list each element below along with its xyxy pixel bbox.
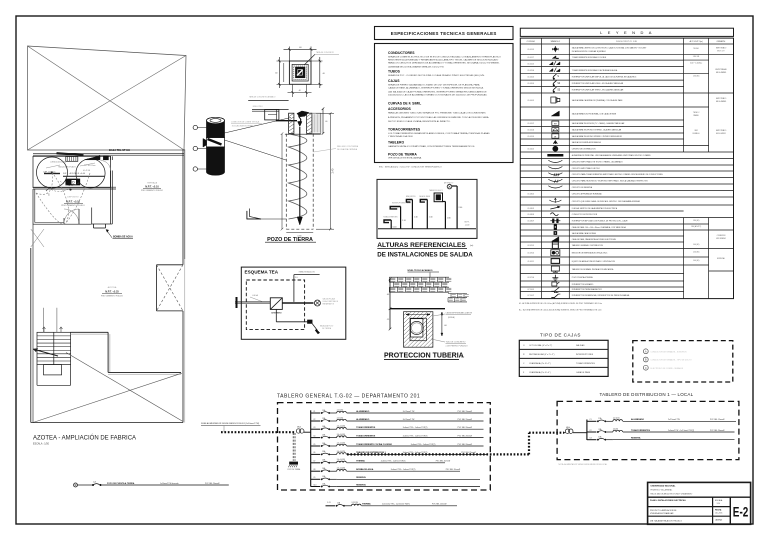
- svg-text:LLEGA 2x10mm2 TW: LLEGA 2x10mm2 TW: [50, 161, 67, 164]
- pozo de tierra - register box plan view: [289, 61, 311, 84]
- TD1 dashed box: [557, 401, 739, 459]
- svg-text:VER DISENO: VER DISENO: [716, 238, 727, 240]
- small brick block right: [448, 294, 469, 302]
- svg-text:POZO DE TIERRA: POZO DE TIERRA: [388, 153, 417, 157]
- svg-text:1.40 (M.): 1.40 (M.): [693, 244, 700, 246]
- svg-text:LA MINIMA SECCION A USARSE SER: LA MINIMA SECCION A USARSE SERA DE 2.5mm…: [388, 66, 444, 69]
- svg-text:OBSERV.: OBSERV.: [717, 41, 726, 43]
- svg-text:LLEGA: LLEGA: [252, 294, 259, 297]
- svg-text:THERMA: THERMA: [356, 460, 365, 463]
- conduit dashed arcs in rooms: [36, 172, 52, 194]
- svg-text:BAJA TEL ST HH: BAJA TEL ST HH: [109, 148, 130, 152]
- svg-text:PARA LOS CIRCUITOS DERIVADOS D: PARA LOS CIRCUITOS DERIVADOS DE ALUMBRAD…: [388, 62, 500, 65]
- west boundary wall lower: [30, 248, 32, 423]
- svg-text:PARA INSTALACION: PARA INSTALACION: [299, 270, 316, 273]
- svg-text:2-4+1-4(20): 2-4+1-4(20): [337, 434, 346, 436]
- svg-text:CONDUCTO DE PROTECCION: CONDUCTO DE PROTECCION: [572, 214, 598, 216]
- svg-text:CENTRO DE DISTRIBUCION: CENTRO DE DISTRIBUCION: [572, 149, 596, 151]
- svg-text:SALIDA PARA CAJA DE PASE: SALIDA PARA CAJA DE PASE: [572, 232, 597, 235]
- svg-text:E-2: E-2: [733, 504, 749, 520]
- svg-text:2-4+1-4(20): 2-4+1-4(20): [337, 442, 346, 444]
- svg-text:DE PVC RIGIDO CLASE LIVIANA, R: DE PVC RIGIDO CLASE LIVIANA, RESISTENTE …: [388, 120, 451, 123]
- lower terrace crossed diagonals: [33, 373, 182, 422]
- shaft dashed X: [157, 265, 184, 311]
- down line to ground terminal: [275, 309, 277, 321]
- svg-text:CONECTOR DE COBRE TIPO A-B: CONECTOR DE COBRE TIPO A-B: [231, 121, 260, 124]
- svg-text:o DE FIERRO FUNDIDO: o DE FIERRO FUNDIDO: [446, 345, 469, 347]
- svg-text:2-6+1-6(25): 2-6+1-6(25): [337, 451, 346, 453]
- lamp circle symbol: [314, 300, 320, 306]
- pozo tierra circuit row bottom left: [74, 483, 78, 487]
- svg-text:DE TIERRA: DE TIERRA: [322, 327, 332, 330]
- svg-text:C-11: C-11: [327, 502, 331, 504]
- room divider wall: [33, 186, 116, 188]
- dimension right of box: [311, 60, 323, 62]
- svg-text:CIRCUITO PARA TOMACORRIENTES E: CIRCUITO PARA TOMACORRIENTES EMPOTRADO E…: [572, 173, 664, 176]
- svg-text:CAJA DE PASE: 100 x 100 x 55mm: CAJA DE PASE: 100 x 100 x 55mm CUADRADA,…: [572, 226, 627, 229]
- svg-text:CIRCUITO PARA TELEVISION / TEL: CIRCUITO PARA TELEVISION / TELEFONO EMPO…: [572, 180, 649, 183]
- svg-text:ALUMBRADO: ALUMBRADO: [631, 418, 645, 421]
- svg-text:LOS TOMACORRIENTES SERAN BIPOL: LOS TOMACORRIENTES SERAN BIPOLARES DOBLE…: [388, 132, 490, 135]
- svg-text:CIRCUITO EMPOTRADO EN PISO: CIRCUITO EMPOTRADO EN PISO: [572, 167, 601, 170]
- svg-text:.60: .60: [322, 73, 325, 75]
- svg-text:ALUMBRADO: ALUMBRADO: [356, 410, 370, 413]
- left vertical dimension: [389, 279, 391, 329]
- svg-text:SALIDAS: SALIDAS: [576, 344, 585, 347]
- svg-text:N.P.T. +5.10: N.P.T. +5.10: [145, 185, 159, 188]
- svg-text:.60: .60: [299, 47, 302, 49]
- stair landing: [44, 365, 62, 375]
- svg-text:L E Y E N D A: L E Y E N D A: [600, 30, 653, 35]
- svg-text:ESC : S/ESCALA (m): ESC : S/ESCALA (m) : metros TW : CONDUCT…: [379, 166, 442, 169]
- svg-text:01.05.05: 01.05.05: [528, 136, 535, 138]
- svg-text:1.40 (M.): 1.40 (M.): [693, 260, 700, 262]
- svg-text:PVC SEL 20mmØ: PVC SEL 20mmØ: [710, 430, 725, 432]
- svg-text:1/50: 1/50: [717, 503, 721, 505]
- door opening and swing: [63, 218, 65, 224]
- svg-text:PISO CEMENTO PULIDO: PISO CEMENTO PULIDO: [141, 190, 164, 192]
- svg-text:SERAN DE PVC - CLORURO DE POLI: SERAN DE PVC - CLORURO DE POLIVINILO CLA…: [388, 74, 485, 77]
- svg-text:EN T. O P.: EN T. O P.: [717, 51, 725, 53]
- svg-text:(m): (m): [461, 357, 465, 359]
- svg-text:INTERRUPTOR BIPOLAR CON FUSIBL: INTERRUPTOR BIPOLAR CON FUSIBLE, DE PROT…: [572, 220, 629, 223]
- especificaciones title box: [375, 27, 514, 40]
- salida 2: [400, 207, 402, 229]
- line to lamp: [282, 302, 313, 304]
- svg-text:EQUIPO DE AIRE ACONDICIONADO /: EQUIPO DE AIRE ACONDICIONADO / VENTILACI…: [572, 260, 616, 263]
- salida 4: [426, 200, 428, 229]
- svg-text:01.08.07: 01.08.07: [528, 221, 535, 223]
- svg-text:1.80 / ML: 1.80 / ML: [693, 56, 700, 58]
- svg-text:2-4+1-4(20): 2-4+1-4(20): [337, 468, 346, 470]
- svg-text:THERMA: THERMA: [362, 503, 371, 506]
- floor plan - upper crossed roof area: [28, 46, 187, 150]
- svg-text:TOMACORRIENTE MONOFASICO DOBLE: TOMACORRIENTE MONOFASICO DOBLE: [572, 56, 607, 59]
- conductor entry double lines: [252, 109, 289, 111]
- svg-text:TIPO DE CAJAS: TIPO DE CAJAS: [540, 333, 581, 338]
- medidor symbol at TG entry: [296, 429, 300, 433]
- helix electrode coil: [289, 134, 307, 219]
- svg-text:01.03.05: 01.03.05: [528, 83, 535, 85]
- svg-text:CAJA DE PASE: CAJA DE PASE: [576, 371, 591, 374]
- svg-text:CONEXION: CONEXION: [717, 235, 726, 237]
- svg-text:S.E.: S.E.: [295, 277, 299, 279]
- TG vertical bus: [310, 410, 312, 486]
- svg-text:PVC SEL 15mmØ: PVC SEL 15mmØ: [458, 419, 473, 421]
- svg-text:RESERVA: RESERVA: [356, 483, 366, 486]
- svg-text:2-4+1-4(20): 2-4+1-4(20): [337, 459, 346, 461]
- svg-text:SALIDA PARA TELEVISION (TV - C: SALIDA PARA TELEVISION (TV - CABLE), CAJ…: [572, 122, 625, 125]
- svg-text:SERAN DE COBRE ELECTROLITICO D: SERAN DE COBRE ELECTROLITICO DE 99.9% DE…: [388, 56, 501, 59]
- right dim arrows: [441, 312, 443, 336]
- tipo de cajas table: [519, 340, 608, 376]
- svg-text:.40: .40: [298, 90, 300, 92]
- svg-text:ALUMBRADO: ALUMBRADO: [356, 418, 370, 421]
- svg-text:TABLERO GENERAL / DISTRIBUCION: TABLERO GENERAL / DISTRIBUCION: [572, 244, 604, 247]
- svg-text:ALTURAS REFERENCIALES: ALTURAS REFERENCIALES: [377, 242, 466, 249]
- svg-text:2x4mm2 TW + 1x4mm2 TW(T): 2x4mm2 TW + 1x4mm2 TW(T): [403, 435, 428, 437]
- svg-text:02.02.01: 02.02.01: [528, 245, 535, 247]
- deposito room walls: [32, 189, 34, 224]
- svg-text:ALIMENTADOR PRINCIPAL. VER DIA: ALIMENTADOR PRINCIPAL. VER DIAGRAMA DE U…: [572, 154, 652, 157]
- svg-text:01.03.02: 01.03.02: [528, 77, 535, 79]
- svg-text:kW-h: kW-h: [297, 427, 301, 429]
- TG ground tap double dashed: [292, 433, 294, 461]
- esquema inner dashed box: [246, 280, 304, 330]
- title block top cell: [648, 496, 751, 498]
- svg-text:TABLERO GENERAL T.G-02 —: TABLERO GENERAL T.G-02 — DEPARTAMENTO 20…: [277, 393, 420, 399]
- ground rod cylinder detail: [203, 117, 225, 175]
- svg-text:CAJAS DE PASE, ALUMBRADO, INTE: CAJAS DE PASE, ALUMBRADO, INTERRUPTORES …: [388, 87, 484, 90]
- svg-text:07.10.01: 07.10.01: [528, 289, 535, 291]
- esquema tea outer box: [241, 267, 345, 339]
- svg-text:PVC SEL 15mmØ: PVC SEL 15mmØ: [432, 504, 447, 506]
- svg-text:V= 2.50: V= 2.50: [83, 170, 91, 172]
- svg-text:INTERRUPTOR UNIPOLAR TRIPLE -: INTERRUPTOR UNIPOLAR TRIPLE - EN CAJA RE…: [572, 89, 624, 92]
- svg-text:CONDUCTORES: CONDUCTORES: [388, 51, 415, 55]
- svg-text:TUB. DE CONCRETO: TUB. DE CONCRETO: [446, 342, 466, 344]
- left dim of well: [281, 134, 283, 230]
- wall crossing black marks: [236, 297, 238, 308]
- svg-text:PVC SEL 20mmØ: PVC SEL 20mmØ: [436, 461, 451, 463]
- svg-text:OCTOGONAL (4"x 4"x 2"): OCTOGONAL (4"x 4"x 2"): [529, 344, 552, 347]
- svg-text:VER DETALLE EN ESTA LAMINA.: VER DETALLE EN ESTA LAMINA.: [388, 157, 422, 160]
- pipe circle inside: [411, 319, 423, 337]
- especificaciones body box: [375, 44, 514, 163]
- salida 6 - braquete alto con artefacto: [456, 186, 458, 229]
- svg-text:0.40 / *1.40 (Ba.): 0.40 / *1.40 (Ba.): [690, 63, 703, 65]
- svg-text:CAJA DE PASE, PARA INSTALACION: CAJA DE PASE, PARA INSTALACIONES ELECTRI…: [572, 238, 617, 241]
- svg-text:CIRCUITO QUE SUBE / BAJA - SE: CIRCUITO QUE SUBE / BAJA - SE INDICA EL …: [572, 200, 641, 203]
- small crossed corner at west: [31, 229, 44, 247]
- svg-text:2x4mm2 TW + 1x4mm2 TW(T): 2x4mm2 TW + 1x4mm2 TW(T): [391, 469, 416, 471]
- south boundary: [31, 422, 183, 424]
- svg-text:0.40: 0.40: [393, 227, 397, 229]
- svg-text:AZOTEA: AZOTEA: [108, 286, 117, 289]
- svg-text:INTERRUPTOR UNIPOLAR DOBLE - E: INTERRUPTOR UNIPOLAR DOBLE - EN CAJA REC…: [572, 82, 624, 85]
- dimension lines above box: [288, 47, 290, 62]
- svg-text:01.09.02: 01.09.02: [528, 253, 535, 255]
- svg-text:2x4mm2 TW + 1x2.5mm2 TW(T): 2x4mm2 TW + 1x2.5mm2 TW(T): [668, 430, 695, 432]
- svg-text:2.40: 2.40: [332, 168, 335, 173]
- thermowelded joint black: [297, 111, 309, 117]
- svg-text:NIVEL PISO: NIVEL PISO: [253, 106, 264, 108]
- svg-text:UNIVERSIDAD NACIONAL: UNIVERSIDAD NACIONAL: [651, 485, 677, 488]
- svg-text:PISO CEMENTO PULIDO: PISO CEMENTO PULIDO: [61, 205, 85, 207]
- svg-text:CIRCUITO DE RESERVA: CIRCUITO DE RESERVA: [572, 186, 593, 189]
- svg-text:PLANO: INSTALACIONES ELECTRIC: PLANO: INSTALACIONES ELECTRICAS: [650, 499, 686, 502]
- svg-text:NOTA: ALIMENTADOR VIENE DESDE: NOTA: ALIMENTADOR VIENE DESDE MEDIDOR M-…: [559, 463, 608, 466]
- svg-text:.60: .60: [325, 121, 327, 123]
- svg-text:CONDUCTOR DE SENALES - SONOR: CONDUCTOR DE SENALES - SONOROS: [651, 350, 688, 353]
- bottom line under walls: [285, 133, 321, 135]
- plan north wall: [33, 152, 184, 154]
- leyenda main table: [520, 38, 733, 299]
- section connection lines from plan to section: [292, 84, 294, 97]
- svg-text:GABINETE METALICO P/EMPOTRAR,: GABINETE METALICO P/EMPOTRAR, CON INTERR…: [388, 145, 475, 148]
- svg-text:POZO DE PUESTA A TIERRA: POZO DE PUESTA A TIERRA: [107, 482, 135, 485]
- svg-text:SOLDADURA EXOTERMICA: SOLDADURA EXOTERMICA: [232, 125, 256, 128]
- feeder double line into esquema: [235, 301, 270, 303]
- svg-text:TOMACORRIENTES: TOMACORRIENTES: [356, 434, 376, 437]
- salida 3: [411, 200, 413, 229]
- hatched encasement square: [404, 312, 433, 348]
- top inner dim arrows: [406, 314, 430, 316]
- dashed notes box with A B C: [633, 341, 733, 382]
- svg-text:2-2.5(15): 2-2.5(15): [352, 502, 359, 504]
- svg-text:B: B: [645, 358, 647, 362]
- svg-text:CAJAS: CAJAS: [388, 79, 400, 83]
- svg-text:CIRCUITO A PRUEBA DE HUMEDAD: CIRCUITO A PRUEBA DE HUMEDAD: [572, 193, 603, 196]
- pump box: [66, 179, 80, 185]
- svg-text:TOMACORRIENTES: TOMACORRIENTES: [576, 362, 596, 365]
- svg-text:TABLERO: TABLERO: [388, 141, 404, 145]
- svg-text:SALIDA PARA CENTRO DE LUZ EN T: SALIDA PARA CENTRO DE LUZ EN TECHO, CAJA…: [572, 46, 648, 49]
- svg-text:01.02.04: 01.02.04: [528, 70, 535, 72]
- east boundary wall: [182, 150, 184, 260]
- svg-text:LAS SALIDAS DE CAJA P/TOMACORR: LAS SALIDAS DE CAJA P/TOMACORRIENTES, IN…: [388, 91, 487, 94]
- svg-text:INCANDESCENTE O SIMILAR EQUIPA: INCANDESCENTE O SIMILAR EQUIPADO: [572, 50, 607, 53]
- stairs: [37, 332, 71, 364]
- svg-text:DE CHACRA CERNIDA: DE CHACRA CERNIDA: [337, 148, 358, 151]
- svg-text:N.F.T. +8.95 N.F.F. +6.40: N.F.T. +8.95 N.F.F. +6.40: [63, 173, 86, 175]
- svg-text:TERRAZA: TERRAZA: [147, 182, 158, 185]
- svg-text:TABLERO DE BOMBAS. INSTALACION: TABLERO DE BOMBAS. INSTALACION MECANICA: [572, 268, 614, 271]
- svg-text:PVC SEL 20mmØ: PVC SEL 20mmØ: [458, 435, 473, 437]
- bottom left pipe elbow: [247, 211, 261, 219]
- svg-text:NIVEL TECHO ACABADO: NIVEL TECHO ACABADO: [408, 269, 433, 272]
- svg-text:Ba. : ALTURA INFERIOR DE 1.40: Ba. : ALTURA INFERIOR DE 1.40 (0.40m ALT…: [519, 309, 602, 312]
- leader lines to pozo detail: [225, 118, 292, 134]
- roof inner parapet L-line: [71, 331, 109, 333]
- svg-text:02.07.06: 02.07.06: [528, 277, 535, 279]
- tank room walls: [33, 156, 111, 187]
- bottom dim: [286, 232, 313, 234]
- svg-text:PISO CEMENTO PULIDO: PISO CEMENTO PULIDO: [101, 295, 124, 297]
- svg-text:(BREA): (BREA): [448, 316, 455, 319]
- svg-text:1.50 (M.): 1.50 (M.): [693, 252, 700, 254]
- svg-text:ESCALA:: ESCALA:: [715, 499, 723, 502]
- svg-text:01.05.07: 01.05.07: [528, 123, 535, 125]
- svg-text:A: A: [645, 349, 647, 353]
- salida 5 - tablero caja: [444, 202, 446, 229]
- center down conductor with arrow: [299, 127, 301, 219]
- svg-text:CAPA IMPERMEABILIZANTE: CAPA IMPERMEABILIZANTE: [446, 312, 473, 315]
- svg-text:TOMACORRIENTE COCINA Y HORNO: TOMACORRIENTE COCINA Y HORNO: [356, 443, 392, 446]
- stair arrow: [33, 349, 58, 356]
- diagonal to electrode: [312, 324, 317, 331]
- right dimension line of well: [316, 112, 334, 114]
- stair top symbols: [43, 327, 46, 332]
- svg-text:ACCESORIOS: ACCESORIOS: [388, 107, 412, 111]
- svg-text:1.80: 1.80: [447, 217, 451, 219]
- svg-text:POZO PUESTA A TIERRA: POZO PUESTA A TIERRA: [572, 276, 594, 279]
- svg-text:ESQUEMA TEA: ESQUEMA TEA: [245, 269, 279, 274]
- svg-text:2-2.5(15): 2-2.5(15): [337, 417, 344, 419]
- feeder dotted line from left: [221, 431, 296, 433]
- svg-text:PARARRAYOS: PARARRAYOS: [323, 303, 335, 306]
- svg-text:TECHO /: TECHO /: [693, 112, 700, 114]
- svg-text:RELLENO CON TIERRA: RELLENO CON TIERRA: [337, 145, 359, 148]
- svg-text:SALIDA PARA TELEFONO INTERNO /: SALIDA PARA TELEFONO INTERNO / INTERCOMU…: [572, 135, 623, 138]
- svg-text:TAPA DE CONCRETO: TAPA DE CONCRETO: [316, 51, 335, 54]
- svg-text:CUADRADA (4"x 4"x 2"): CUADRADA (4"x 4"x 2"): [529, 362, 551, 365]
- section right dim line: [322, 109, 324, 134]
- TG ground symbol: [289, 462, 298, 465]
- svg-text:CURVAS DE F. SIMIL: CURVAS DE F. SIMIL: [388, 102, 421, 106]
- svg-text:01.05.04: 01.05.04: [528, 130, 535, 132]
- svg-text:EN EL MURO: EN EL MURO: [716, 133, 727, 135]
- svg-text:PVC SEL 15mmØ: PVC SEL 15mmØ: [710, 419, 725, 421]
- svg-text:SALIDA PARA CALENTADOR (THERMA: SALIDA PARA CALENTADOR (THERMA), CON CAJ…: [572, 99, 623, 102]
- dimension left of box: [277, 60, 290, 62]
- svg-text:TANQUE ELEVADO: TANQUE ELEVADO: [58, 165, 76, 168]
- svg-text:PARA LAS UNIONES TUBO-TUBO SER: PARA LAS UNIONES TUBO-TUBO SERAN DE PVC …: [388, 112, 486, 115]
- svg-text:PVC SEL 20mmØ: PVC SEL 20mmØ: [446, 469, 461, 471]
- svg-text:D E S C R I P C I O N: D E S C R I P C I O N: [616, 41, 637, 43]
- svg-text:01.06.01: 01.06.01: [528, 149, 535, 151]
- svg-text:2x4mm2 TW + 1x4mm2 TW(T): 2x4mm2 TW + 1x4mm2 TW(T): [403, 427, 428, 429]
- svg-text:2-2.5(15): 2-2.5(15): [337, 409, 344, 411]
- conductor squiggle down into well: [299, 114, 301, 122]
- svg-text:SALIDA PARA ELECTROBOMBA, CON: SALIDA PARA ELECTROBOMBA, CON CAJA DE PA…: [572, 112, 617, 115]
- svg-text:01.08.02: 01.08.02: [528, 208, 535, 210]
- alt col divider lines: [684, 53, 709, 55]
- svg-text:BOMBA DE AGUA: BOMBA DE AGUA: [113, 236, 133, 239]
- junction boxlet: [265, 110, 279, 120]
- svg-text:2-4(20): 2-4(20): [613, 428, 619, 430]
- svg-text:01.08.03: 01.08.03: [528, 214, 535, 216]
- svg-text:100x55x50mm; LAS DE ALUMBRADO: 100x55x50mm; LAS DE ALUMBRADO SERAN OCTO…: [388, 94, 488, 97]
- svg-text:N.P.T.: N.P.T.: [465, 222, 470, 224]
- svg-text:TOMACORRIENTES: TOMACORRIENTES: [356, 426, 376, 429]
- svg-text:RESERVA: RESERVA: [631, 437, 641, 440]
- svg-text:.15: .15: [387, 319, 390, 321]
- svg-text:PVC SEL 20mmØ: PVC SEL 20mmØ: [458, 444, 473, 446]
- stair enclosure walls above: [43, 308, 45, 333]
- svg-text:PVC SEL 25mm: PVC SEL 25mm: [84, 165, 96, 167]
- svg-text:ALT. S.N.P.T.(m): ALT. S.N.P.T.(m): [690, 40, 703, 43]
- svg-text:RESERVA: RESERVA: [356, 476, 366, 479]
- svg-text:M. : ALTURA SUPERIOR DE LOS: M. : ALTURA SUPERIOR DE LOS 0.40m (ALTUR…: [519, 302, 602, 305]
- svg-text:07.10.07: 07.10.07: [528, 295, 535, 297]
- svg-text:INTERRUPTORES: INTERRUPTORES: [576, 354, 594, 356]
- svg-text:(m): (m): [470, 245, 474, 247]
- svg-text:INTERRUPTOR UNIPOLAR SIMPLE -: INTERRUPTOR UNIPOLAR SIMPLE - AL LADO DE…: [572, 76, 638, 79]
- tea transformer box: [270, 298, 282, 310]
- equipment box D2: [103, 156, 108, 160]
- TG dashed box: [278, 403, 491, 490]
- leader from corner: [304, 54, 315, 65]
- svg-text:TOMACORRIENTES: TOMACORRIENTES: [631, 429, 651, 432]
- title block dividers: [712, 497, 714, 524]
- svg-text:A PRESION; PEGAMENTO PVC EN TO: A PRESION; PEGAMENTO PVC EN TODAS LAS UN…: [388, 116, 489, 119]
- svg-text:2x2.5mm2 TW: 2x2.5mm2 TW: [403, 411, 415, 413]
- svg-text:kW-h: kW-h: [566, 427, 570, 429]
- svg-text:FEDERICO VILLARREAL: FEDERICO VILLARREAL: [651, 488, 673, 491]
- svg-text:.40: .40: [387, 294, 390, 296]
- alturas referenciales box: [377, 179, 477, 238]
- feeder to TD1 dotted stepped line: [347, 453, 529, 455]
- svg-text:Y REDONDAS 10A-250V.: Y REDONDAS 10A-250V.: [388, 135, 414, 138]
- svg-text:01.09.11: 01.09.11: [528, 261, 535, 263]
- svg-text:01.01.17: 01.01.17: [528, 57, 535, 59]
- riser line up: [293, 275, 295, 302]
- svg-text:TECHO: TECHO: [693, 48, 699, 50]
- svg-text:JUL-2005: JUL-2005: [715, 513, 722, 515]
- svg-text:2x2.5mm2 TW: 2x2.5mm2 TW: [403, 419, 415, 421]
- svg-text:RESISTENTE A LA HUMEDAD Y RETA: RESISTENTE A LA HUMEDAD Y RETARDANTE A L…: [388, 59, 499, 62]
- svg-text:INTERRUPTOR HORARIO: INTERRUPTOR HORARIO: [572, 283, 594, 286]
- leyenda column lines: [540, 38, 542, 299]
- svg-text:01.08.01: 01.08.01: [528, 194, 535, 196]
- leyenda header row: [520, 43, 733, 45]
- svg-text:2-2.5(15): 2-2.5(15): [613, 418, 620, 420]
- svg-text:LAMINA:: LAMINA:: [715, 519, 723, 522]
- ground level line left of box: [248, 100, 288, 102]
- svg-text:RECTANGULAR (4"x 2"x 2"): RECTANGULAR (4"x 2"x 2"): [529, 353, 555, 356]
- svg-text:CUADRADA (6"x 6"x 4"): CUADRADA (6"x 6"x 4"): [529, 371, 551, 374]
- svg-text:01.01.01: 01.01.01: [528, 49, 535, 51]
- mid horizontal line: [390, 308, 445, 310]
- leader dots for cylinder: [193, 125, 197, 129]
- svg-text:01.02.01: 01.02.01: [528, 63, 535, 65]
- svg-text:ESCALA : 1/50: ESCALA : 1/50: [33, 442, 50, 445]
- svg-text:CODIGO: CODIGO: [527, 41, 536, 43]
- water tank 2: [76, 159, 105, 188]
- svg-text:SERAN DE FIERRO GALVANIZADO LI: SERAN DE FIERRO GALVANIZADO LIVIANO DE 1…: [388, 84, 480, 87]
- svg-text:+0.00: +0.00: [465, 224, 470, 226]
- vent grille box: [66, 157, 78, 162]
- svg-text:DE INSTALACIONES DE SALIDA: DE INSTALACIONES DE SALIDA: [377, 251, 473, 258]
- svg-text:INTERRUPTOR DIFERENCIAL, INTER: INTERRUPTOR DIFERENCIAL, INTERRUPTOR DE …: [572, 294, 630, 297]
- svg-text:ESPECIFICACIONES TECNICAS GENE: ESPECIFICACIONES TECNICAS GENERALES: [391, 31, 497, 36]
- svg-text:.60: .60: [275, 73, 278, 75]
- svg-text:1.80 (M.): 1.80 (M.): [693, 220, 700, 222]
- svg-text:DIB: SALAZAR PALACIOS TRUJILL: DIB: SALAZAR PALACIOS TRUJILLO: [650, 519, 683, 522]
- svg-text:BOMBA DE AGUA: BOMBA DE AGUA: [356, 468, 374, 471]
- svg-text:ELECTRODO DE COBRE - SENALES: ELECTRODO DE COBRE - SENALES: [651, 367, 684, 370]
- svg-text:.60: .60: [444, 325, 447, 327]
- svg-text:TUBOS: TUBOS: [388, 70, 401, 74]
- svg-text:SALIDA PARA TELEFONO EXTERNO,: SALIDA PARA TELEFONO EXTERNO, CAJA RECTA…: [572, 129, 622, 132]
- svg-text:TABLERO DE DISTRIBUCION 1: TABLERO DE DISTRIBUCION 1 — LOCAL: [600, 392, 694, 397]
- svg-text:TOMACORRIENTE MONOFASICO A PRU: TOMACORRIENTE MONOFASICO A PRUEBA DE AGU…: [572, 69, 618, 72]
- svg-text:SIMBOLO: SIMBOLO: [551, 41, 561, 43]
- water tank 1: [37, 157, 68, 188]
- svg-text:FLECHA: SENTIDO DE LA ALIMENTA: FLECHA: SENTIDO DE LA ALIMENTACION ELECT…: [572, 207, 618, 210]
- svg-text:1.30 (M.): 1.30 (M.): [693, 76, 700, 78]
